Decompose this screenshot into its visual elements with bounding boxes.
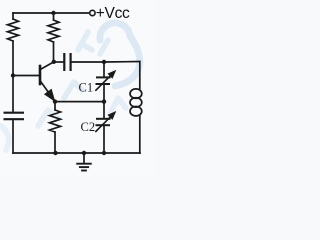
capacitor C3 (base bypass) <box>4 113 25 120</box>
watermark chevron 2 <box>64 82 82 98</box>
node dot emitter resistor bottom <box>53 151 57 155</box>
node dot top rail / R2 <box>51 11 55 15</box>
node dot tank top <box>102 60 106 64</box>
inductor L1 <box>130 62 142 154</box>
resistor R3 (emitter) <box>50 102 61 153</box>
svg-text:+Vcc: +Vcc <box>96 5 130 22</box>
node dot C2 bottom <box>102 151 106 155</box>
node dot collector <box>52 60 56 64</box>
wire emitter to tank <box>55 101 104 103</box>
wire collector to coupling cap <box>54 61 64 63</box>
node dot ground <box>82 151 86 155</box>
watermark swirl top right <box>100 23 140 86</box>
wire C1 bottom lead <box>103 84 105 102</box>
variable capacitor C1 <box>95 71 115 91</box>
watermark chevron 4 <box>110 98 126 114</box>
ground <box>77 153 91 171</box>
wire C2 bottom lead <box>103 125 105 153</box>
node dot feedback junction <box>102 99 106 103</box>
wire left rail lower <box>12 119 14 153</box>
wire tank top <box>71 61 140 64</box>
wire left rail upper <box>12 13 14 19</box>
wire C1 top lead <box>103 62 105 77</box>
wire left rail middle <box>12 41 14 112</box>
terminal +Vcc <box>90 10 95 15</box>
resistor R2 <box>48 13 59 62</box>
svg-text:C2: C2 <box>81 120 96 134</box>
watermark swirl bottom left <box>1 126 9 150</box>
svg-text:C1: C1 <box>79 81 94 95</box>
node dot emitter <box>53 99 57 103</box>
transistor Q1 <box>40 62 55 101</box>
wire C2 top lead <box>103 102 105 119</box>
wire bottom rail <box>13 152 140 154</box>
resistor R1 <box>8 19 19 41</box>
coupling capacitor <box>64 53 70 71</box>
wire base <box>13 75 39 77</box>
watermark chevron 1 <box>38 110 58 126</box>
node dot base <box>11 73 15 77</box>
variable capacitor C2 <box>95 112 115 132</box>
watermark mark a <box>78 32 92 50</box>
watermark mark b <box>100 40 108 54</box>
wire top rail <box>13 12 89 14</box>
